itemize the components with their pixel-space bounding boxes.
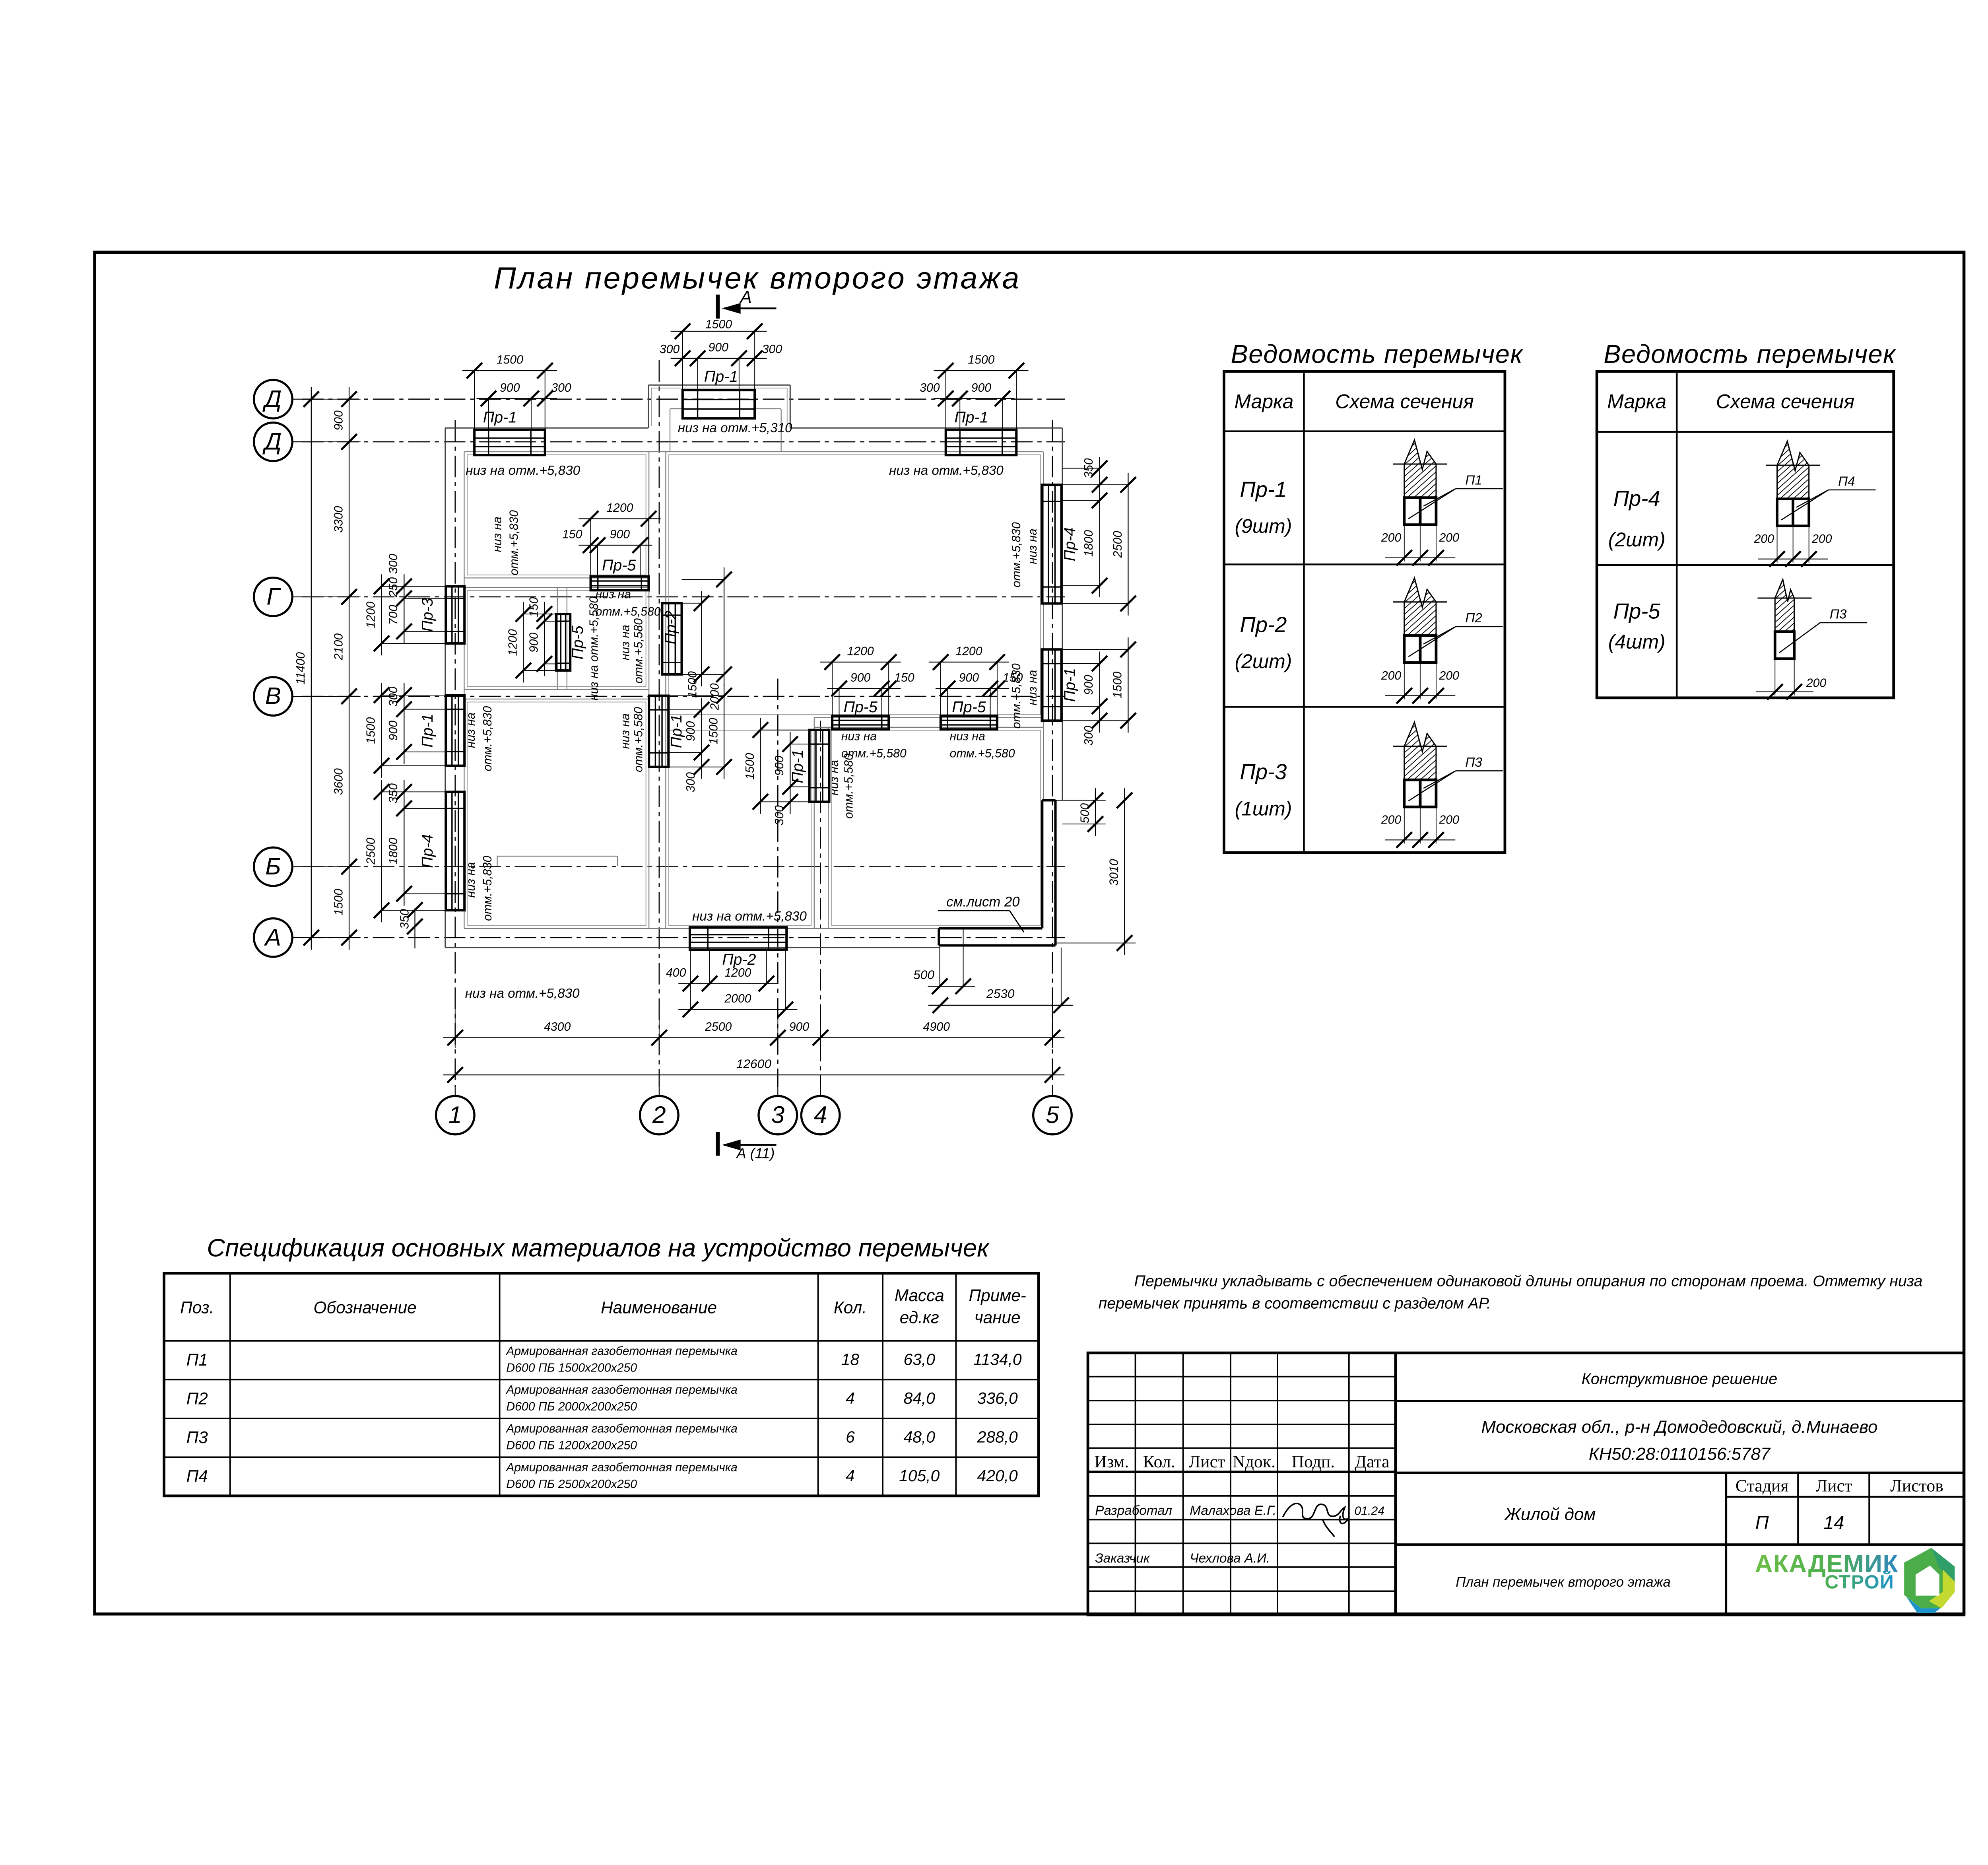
svg-text:ед.кг: ед.кг — [900, 1308, 939, 1327]
svg-text:П2: П2 — [186, 1389, 208, 1408]
axis line 1 — [454, 420, 456, 1087]
svg-text:Пр-5: Пр-5 — [602, 556, 636, 574]
room outline big right — [669, 455, 1041, 715]
vedomost table 1 title — [1231, 339, 1523, 368]
svg-text:1200: 1200 — [364, 601, 377, 628]
vedomost1 header texts — [1235, 390, 1474, 412]
axis line 3 — [777, 678, 779, 1087]
specification row П1 — [186, 1344, 1022, 1374]
svg-text:2: 2 — [652, 1101, 666, 1128]
axis Б — [254, 847, 302, 886]
svg-text:300: 300 — [551, 381, 571, 394]
svg-text:5: 5 — [1046, 1101, 1059, 1128]
lintel Пр-4 right wall — [1042, 457, 1136, 616]
kitchen ledge — [497, 856, 617, 866]
elevation text left wall Г — [491, 510, 520, 575]
vedomost1 row Пр-3 — [1235, 760, 1292, 820]
svg-text:Пр-2: Пр-2 — [662, 610, 679, 644]
title block Жилой дом — [1504, 1504, 1596, 1524]
svg-text:4300: 4300 — [544, 1020, 571, 1034]
svg-text:Б: Б — [265, 853, 281, 880]
room outline mid-left — [467, 591, 646, 686]
lintel Пр-2 interior wall upper — [662, 567, 732, 711]
dim chain axes 1-5 (4300/2500/900/4900) — [443, 1006, 1065, 1048]
svg-text:1200: 1200 — [847, 645, 874, 658]
svg-text:48,0: 48,0 — [904, 1428, 936, 1446]
specification title — [207, 1234, 990, 1262]
elevation text bump — [678, 421, 792, 435]
elevation text Пр-5 Г — [596, 588, 661, 618]
svg-text:отм.+5,830: отм.+5,830 — [481, 856, 494, 921]
svg-text:250: 250 — [387, 577, 400, 598]
svg-text:Жилой дом: Жилой дом — [1504, 1504, 1596, 1524]
svg-text:Схема сечения: Схема сечения — [1716, 390, 1855, 412]
svg-text:Пр-4: Пр-4 — [1061, 527, 1079, 561]
svg-text:200: 200 — [1806, 677, 1827, 690]
svg-text:Пр-1: Пр-1 — [419, 714, 436, 748]
specification header texts — [180, 1286, 1026, 1327]
svg-text:3300: 3300 — [332, 506, 345, 532]
title block stage values — [1755, 1512, 1844, 1533]
svg-text:1500: 1500 — [686, 671, 699, 698]
dim total 11400 — [294, 387, 319, 950]
svg-text:300: 300 — [762, 343, 782, 356]
svg-text:500: 500 — [1078, 803, 1091, 824]
svg-text:низ на: низ на — [950, 730, 985, 743]
svg-text:200: 200 — [1439, 669, 1459, 682]
specification table frame — [164, 1273, 1039, 1496]
lintel Пр-5 bathroom #1 — [820, 645, 914, 730]
svg-text:900: 900 — [387, 721, 400, 741]
svg-text:2000: 2000 — [708, 683, 721, 710]
elevation text bottom Пр-2 — [692, 909, 807, 924]
svg-text:700: 700 — [387, 605, 400, 625]
svg-text:14: 14 — [1823, 1512, 1844, 1533]
svg-text:П3: П3 — [1465, 755, 1482, 770]
svg-text:3600: 3600 — [332, 768, 345, 795]
svg-text:2500: 2500 — [1111, 531, 1124, 558]
lintel Пр-1 interior wall axis 2 — [649, 684, 732, 792]
lintel Пр-5 bathroom #2 — [929, 645, 1023, 730]
svg-text:Пр-3: Пр-3 — [1240, 760, 1287, 784]
svg-text:63,0: 63,0 — [904, 1350, 936, 1368]
lintel Пр-1 top-left — [462, 354, 571, 455]
svg-text:900: 900 — [528, 632, 541, 653]
exterior wall top — [445, 428, 1062, 452]
svg-text:1200: 1200 — [955, 645, 982, 658]
svg-text:84,0: 84,0 — [904, 1389, 936, 1407]
svg-text:Ведомость перемычек: Ведомость перемычек — [1604, 339, 1896, 368]
svg-text:Подп.: Подп. — [1291, 1452, 1335, 1471]
svg-text:Пр-2: Пр-2 — [1240, 612, 1287, 637]
vedomost2 sketch П3 single — [1715, 565, 1932, 700]
svg-text:Пр-1: Пр-1 — [704, 368, 738, 385]
svg-text:150: 150 — [562, 528, 582, 541]
svg-text:D600 ПБ 1500х200х250: D600 ПБ 1500х200х250 — [506, 1362, 637, 1375]
signature — [1283, 1504, 1349, 1537]
axis line Д upper — [302, 398, 1065, 400]
svg-text:200: 200 — [1381, 813, 1402, 826]
svg-text:низ на: низ на — [828, 760, 841, 795]
title block sheet name — [1456, 1575, 1671, 1590]
axis line Г — [302, 596, 1065, 598]
svg-text:1: 1 — [448, 1101, 462, 1128]
svg-text:900: 900 — [850, 671, 871, 684]
svg-text:300: 300 — [387, 554, 400, 574]
svg-text:Д: Д — [262, 428, 282, 455]
svg-text:900: 900 — [610, 528, 630, 541]
svg-text:Заказчик: Заказчик — [1095, 1551, 1150, 1566]
svg-text:Стадия: Стадия — [1736, 1476, 1789, 1495]
svg-text:3: 3 — [771, 1101, 785, 1128]
svg-text:300: 300 — [387, 686, 400, 707]
svg-text:Армированная газобетонная пере: Армированная газобетонная перемычка — [505, 1383, 738, 1397]
svg-text:Пр-4: Пр-4 — [1613, 486, 1660, 511]
svg-text:низ на отм.+5,580: низ на отм.+5,580 — [588, 596, 601, 701]
svg-text:Армированная газобетонная пере: Армированная газобетонная перемычка — [505, 1461, 738, 1474]
svg-text:отм.+5,580: отм.+5,580 — [950, 747, 1015, 760]
svg-text:отм.+5,580: отм.+5,580 — [632, 618, 645, 684]
svg-text:300: 300 — [773, 805, 786, 826]
svg-text:низ на отм.+5,310: низ на отм.+5,310 — [678, 421, 792, 435]
svg-text:Наименование: Наименование — [601, 1298, 717, 1317]
svg-text:низ на отм.+5,830: низ на отм.+5,830 — [889, 463, 1004, 478]
svg-text:План перемычек второго этажа: План перемычек второго этажа — [494, 261, 1021, 295]
svg-text:350: 350 — [398, 909, 412, 929]
svg-text:300: 300 — [920, 381, 940, 394]
axis 3 — [759, 1087, 797, 1135]
svg-text:Пр-1: Пр-1 — [954, 409, 988, 426]
interior wall along axis В — [464, 690, 649, 699]
svg-text:2500: 2500 — [364, 837, 377, 865]
svg-text:отм.+5,830: отм.+5,830 — [1010, 522, 1023, 587]
svg-text:420,0: 420,0 — [977, 1467, 1018, 1485]
axis line 4 — [820, 721, 821, 1087]
elevation text left wall В-Б — [464, 706, 494, 771]
svg-text:288,0: 288,0 — [977, 1428, 1018, 1446]
svg-text:отм.+5,580: отм.+5,580 — [841, 747, 907, 760]
svg-text:Марка: Марка — [1235, 390, 1294, 412]
svg-text:см.лист 20: см.лист 20 — [946, 894, 1020, 909]
svg-text:А: А — [264, 923, 281, 950]
vedomost1 sketch П3 — [1344, 713, 1561, 848]
svg-text:чание: чание — [975, 1308, 1021, 1327]
svg-text:Масса: Масса — [895, 1286, 944, 1305]
svg-text:1500: 1500 — [332, 889, 345, 915]
svg-text:01.24: 01.24 — [1354, 1504, 1384, 1517]
elevation text bottom-left room — [465, 986, 580, 1001]
svg-text:900: 900 — [971, 381, 992, 394]
elevation text top-left — [466, 463, 580, 478]
svg-text:низ на: низ на — [464, 862, 478, 898]
axis line 2 — [658, 360, 660, 1088]
elevation text Пр-5 bathroom #2 — [950, 730, 1015, 760]
svg-text:низ на отм.+5,830: низ на отм.+5,830 — [465, 986, 580, 1001]
svg-text:150: 150 — [1003, 671, 1023, 684]
svg-text:низ на: низ на — [491, 517, 504, 552]
svg-text:Пр-1: Пр-1 — [1240, 477, 1287, 501]
elevation text right wall Пр-4 — [1010, 522, 1039, 587]
title block address — [1481, 1417, 1877, 1464]
vedomost1 sketch П2 — [1344, 569, 1561, 704]
svg-text:Кол.: Кол. — [834, 1298, 867, 1317]
svg-text:350: 350 — [387, 783, 400, 804]
axis line А — [302, 937, 1065, 938]
svg-text:1800: 1800 — [1082, 530, 1095, 557]
vedomost table 2 title — [1604, 339, 1896, 368]
svg-text:Дата: Дата — [1355, 1452, 1389, 1471]
svg-text:Д: Д — [262, 385, 282, 412]
callout см.лист 20 — [938, 894, 1024, 932]
svg-text:отм.+5,580: отм.+5,580 — [842, 754, 855, 819]
svg-text:Малахова Е.Г.: Малахова Е.Г. — [1190, 1503, 1276, 1518]
svg-text:D600 ПБ 1200х200х250: D600 ПБ 1200х200х250 — [506, 1439, 637, 1452]
svg-text:П1: П1 — [186, 1350, 208, 1369]
svg-text:Nдок.: Nдок. — [1233, 1452, 1276, 1471]
dim 500 bottom porch — [913, 929, 975, 994]
svg-text:А: А — [739, 288, 752, 307]
elevation text right wall Пр-1 — [1010, 663, 1039, 729]
svg-text:12600: 12600 — [736, 1057, 772, 1071]
svg-text:СТРОЙ: СТРОЙ — [1825, 1571, 1894, 1593]
lintel Пр-4 left wall — [364, 780, 464, 922]
elevation text top-right — [889, 463, 1004, 478]
lintel Пр-1 left wall — [364, 683, 464, 778]
svg-text:Пр-5: Пр-5 — [569, 626, 586, 659]
vedomost1 row Пр-2 — [1235, 612, 1292, 672]
section mark A top — [718, 288, 776, 319]
svg-text:D600 ПБ 2000х200х250: D600 ПБ 2000х200х250 — [506, 1400, 637, 1413]
room outline bathroom — [831, 730, 1041, 925]
axis Д (upper) — [254, 380, 302, 418]
title block Конструктивное решение — [1582, 1370, 1777, 1388]
svg-text:перемычек принять в соответств: перемычек принять в соответствии с разде… — [1099, 1294, 1491, 1312]
main title — [494, 261, 1021, 295]
lintel Пр-1 bathroom wall — [744, 718, 829, 825]
dim 2530 bottom porch — [928, 948, 1073, 1013]
svg-text:1200: 1200 — [606, 501, 633, 515]
svg-text:П4: П4 — [1838, 474, 1855, 489]
svg-text:1200: 1200 — [507, 629, 520, 656]
svg-text:900: 900 — [959, 671, 979, 684]
svg-text:2100: 2100 — [332, 633, 345, 661]
lintel Пр-2 bottom wall — [666, 927, 797, 1017]
bump niche inner line — [651, 388, 787, 426]
svg-text:200: 200 — [1381, 531, 1402, 544]
elevation text bathroom lintel — [828, 754, 855, 819]
svg-text:Пр-3: Пр-3 — [419, 598, 436, 632]
svg-text:900: 900 — [500, 381, 520, 394]
svg-text:900: 900 — [332, 410, 345, 431]
svg-text:отм.+5,580: отм.+5,580 — [632, 707, 645, 772]
title block row Разработал — [1095, 1503, 1384, 1518]
svg-text:1500: 1500 — [744, 753, 757, 779]
svg-text:П2: П2 — [1465, 611, 1482, 626]
lintel Пр-3 left wall — [364, 554, 464, 655]
svg-text:Ведомость перемычек: Ведомость перемычек — [1231, 339, 1523, 368]
elevation text Пр-5 vertical — [588, 596, 601, 701]
vedomost2 row Пр-4 — [1608, 486, 1666, 551]
svg-text:Листов: Листов — [1890, 1476, 1943, 1495]
svg-text:низ на: низ на — [619, 713, 632, 749]
svg-text:Пр-4: Пр-4 — [419, 834, 436, 868]
svg-text:Лист: Лист — [1188, 1452, 1225, 1471]
svg-text:Обозначение: Обозначение — [314, 1298, 417, 1317]
svg-text:400: 400 — [666, 966, 686, 979]
svg-text:А (11): А (11) — [736, 1145, 775, 1161]
svg-text:низ на: низ на — [1026, 528, 1039, 564]
room outline bottom-left — [467, 702, 646, 925]
svg-text:низ на: низ на — [596, 588, 631, 601]
lintel Пр-5 interior wall vertical — [507, 597, 586, 682]
dim 500 step right wall — [1056, 788, 1106, 836]
svg-text:В: В — [265, 682, 281, 709]
svg-text:КН50:28:0110156:5787: КН50:28:0110156:5787 — [1589, 1444, 1771, 1464]
svg-text:300: 300 — [1082, 726, 1095, 746]
svg-text:низ на: низ на — [1026, 670, 1039, 705]
svg-text:Пр-5: Пр-5 — [843, 698, 877, 716]
interior wall bathroom horizontal — [814, 718, 1044, 727]
svg-text:11400: 11400 — [294, 652, 307, 685]
svg-text:200: 200 — [1754, 532, 1774, 546]
svg-text:1500: 1500 — [705, 318, 732, 331]
logo АКАДЕМИК СТРОЙ — [1755, 1548, 1955, 1613]
axis Г — [254, 578, 302, 616]
section mark A(11) bottom — [718, 1132, 776, 1161]
svg-text:1500: 1500 — [364, 717, 377, 744]
svg-text:4: 4 — [814, 1101, 827, 1128]
lintel Пр-1 stair bump — [660, 318, 782, 418]
vedomost1 sketch П1 — [1344, 431, 1561, 566]
axis 2 — [640, 1087, 678, 1135]
exterior wall right — [1043, 428, 1062, 800]
svg-text:300: 300 — [684, 772, 697, 793]
svg-text:Лист: Лист — [1815, 1476, 1852, 1495]
svg-text:низ на: низ на — [464, 713, 478, 748]
svg-text:1500: 1500 — [1111, 672, 1124, 698]
specification row П2 — [186, 1383, 1018, 1413]
svg-text:Поз.: Поз. — [180, 1298, 214, 1317]
svg-text:Приме-: Приме- — [969, 1286, 1026, 1305]
svg-text:Пр-1: Пр-1 — [789, 750, 806, 783]
title block header row Изм — [1094, 1452, 1389, 1471]
svg-text:900: 900 — [708, 341, 728, 354]
svg-text:Перемычки укладывать с обеспеч: Перемычки укладывать с обеспечением один… — [1134, 1272, 1923, 1290]
axis 4 — [801, 1087, 840, 1135]
lintel Пр-5 on wall Г — [562, 501, 661, 590]
svg-text:6: 6 — [846, 1428, 855, 1446]
svg-text:200: 200 — [1439, 531, 1459, 544]
svg-text:1134,0: 1134,0 — [973, 1350, 1022, 1368]
svg-text:900: 900 — [789, 1020, 810, 1034]
svg-text:18: 18 — [841, 1350, 860, 1368]
svg-text:200: 200 — [1439, 813, 1459, 826]
svg-text:низ на: низ на — [841, 730, 877, 743]
specification row П3 — [186, 1422, 1018, 1452]
stair bump walls — [648, 385, 790, 452]
exterior wall left — [445, 428, 464, 947]
svg-text:105,0: 105,0 — [899, 1467, 940, 1485]
svg-text:Схема сечения: Схема сечения — [1335, 390, 1474, 412]
svg-text:1200: 1200 — [724, 966, 751, 979]
sheet frame — [95, 252, 1964, 1614]
axis А — [254, 918, 302, 957]
svg-text:П3: П3 — [186, 1428, 208, 1447]
svg-text:Пр-2: Пр-2 — [722, 951, 756, 968]
axis line Д lower — [302, 441, 1065, 443]
interior wall bathroom vertical — [814, 718, 829, 929]
room outline corridor — [669, 730, 811, 925]
svg-text:4: 4 — [846, 1389, 855, 1407]
svg-text:1500: 1500 — [968, 354, 994, 367]
svg-text:Разработал: Разработал — [1095, 1503, 1172, 1518]
svg-text:П: П — [1755, 1512, 1769, 1533]
svg-text:отм.+5,830: отм.+5,830 — [481, 706, 494, 771]
svg-text:План перемычек второго этажа: План перемычек второго этажа — [1456, 1575, 1671, 1590]
svg-text:500: 500 — [913, 967, 934, 982]
vedomost table 1 frame — [1224, 371, 1505, 853]
svg-text:низ на отм.+5,830: низ на отм.+5,830 — [466, 463, 580, 478]
svg-text:Пр-5: Пр-5 — [1613, 599, 1661, 623]
svg-text:(4шт): (4шт) — [1608, 631, 1666, 653]
svg-text:1500: 1500 — [497, 354, 523, 367]
svg-text:2500: 2500 — [705, 1020, 732, 1034]
svg-text:Спецификация основных материал: Спецификация основных материалов на устр… — [207, 1234, 990, 1262]
svg-text:(1шт): (1шт) — [1235, 797, 1292, 820]
lintel Пр-1 right wall — [1042, 637, 1136, 746]
svg-text:Пр-1: Пр-1 — [668, 714, 685, 748]
axis line 5 — [1052, 420, 1053, 1087]
dim chain axes Д-А (900/3300/2100/3600/1500) — [303, 387, 361, 950]
note paragraph — [1099, 1272, 1923, 1312]
axis 5 — [1033, 1087, 1072, 1135]
dim 3010 right wall — [1056, 788, 1136, 955]
dim total 12600 — [443, 1057, 1065, 1083]
room outline top-left — [467, 455, 646, 575]
elevation text interior axis2 lintel — [619, 707, 645, 772]
svg-text:отм.+5,830: отм.+5,830 — [508, 510, 521, 575]
svg-text:4: 4 — [846, 1467, 855, 1485]
lintel Пр-1 top-right — [920, 354, 1028, 455]
svg-text:150: 150 — [894, 671, 914, 684]
svg-text:336,0: 336,0 — [977, 1389, 1018, 1407]
svg-text:2000: 2000 — [724, 992, 751, 1005]
svg-text:Марка: Марка — [1607, 390, 1666, 412]
svg-text:Пр-1: Пр-1 — [1061, 668, 1079, 702]
svg-text:П3: П3 — [1830, 607, 1847, 622]
svg-text:900: 900 — [684, 721, 697, 741]
svg-text:900: 900 — [773, 756, 786, 776]
vedomost table 2 frame — [1597, 371, 1894, 698]
svg-text:1500: 1500 — [707, 718, 720, 744]
svg-text:1800: 1800 — [387, 837, 400, 864]
svg-text:Г: Г — [266, 583, 281, 610]
svg-text:200: 200 — [1381, 669, 1402, 682]
axis Д (lower) — [254, 423, 302, 461]
axis line В — [302, 695, 1065, 697]
svg-text:(2шт): (2шт) — [1235, 650, 1292, 672]
svg-text:Пр-1: Пр-1 — [483, 409, 517, 426]
svg-text:3010: 3010 — [1108, 859, 1121, 886]
axis В — [254, 677, 302, 716]
interior wall along axis Г — [464, 578, 649, 587]
svg-text:Московская обл., р-н Домодедов: Московская обл., р-н Домодедовский, д.Ми… — [1481, 1417, 1877, 1437]
exterior wall bottom — [445, 929, 940, 948]
svg-text:отм.+5,580: отм.+5,580 — [596, 605, 661, 618]
svg-text:Изм.: Изм. — [1094, 1452, 1129, 1471]
svg-text:D600 ПБ 2500х200х250: D600 ПБ 2500х200х250 — [506, 1478, 637, 1491]
interior wall along axis 2 — [649, 452, 666, 929]
